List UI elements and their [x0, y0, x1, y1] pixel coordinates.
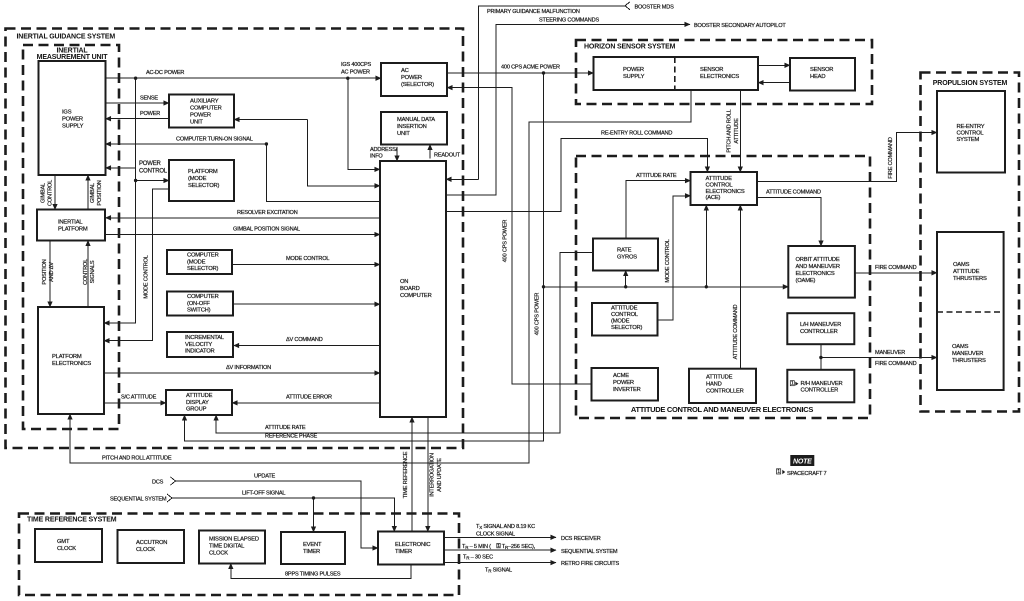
- svg-text:PRIMARY GUIDANCE MALFUNCTION: PRIMARY GUIDANCE MALFUNCTION: [487, 9, 580, 15]
- block: ACCUTRON CLOCK: [118, 530, 185, 563]
- svg-text:SEQUENTIAL SYSTEM: SEQUENTIAL SYSTEM: [110, 497, 167, 503]
- svg-text:400 CPS ACME POWER: 400 CPS ACME POWER: [501, 65, 560, 71]
- svg-text:ATTITUDE CONTROL AND MANEUVER: ATTITUDE CONTROL AND MANEUVER ELECTRONIC…: [631, 405, 813, 414]
- svg-text:FIRE COMMAND: FIRE COMMAND: [888, 137, 894, 179]
- system box: ATTITUDE CONTROL AND MANEUVER ELECTRONICS (dashed): [576, 156, 870, 418]
- svg-text:ATTITUDE RATE: ATTITUDE RATE: [265, 425, 306, 431]
- svg-text:SENSE: SENSE: [140, 96, 158, 102]
- wire: RESOLVER EXCITATION from on-board computer to inertial platform: [106, 217, 381, 219]
- svg-text:TIME REFERENCE: TIME REFERENCE: [403, 451, 409, 498]
- block: ATTITUDE CONTROL (MODE SELECTOR): [592, 303, 658, 336]
- svg-text:INTERROGATION: INTERROGATION: [430, 453, 436, 497]
- wire: STEERING COMMANDS from on-board computer to booster secondary autopilot: [446, 24, 690, 195]
- block: ON BOARD COMPUTER: [380, 161, 446, 417]
- wire: READOUT from on-board computer up to manual data insertion unit: [429, 145, 431, 159]
- block: RE-ENTRY CONTROL SYSTEM: [937, 91, 1005, 173]
- block: EVENT TIMER: [281, 532, 345, 564]
- wire: PITCH AND ROLL ATTITUDE from sensor electronics to ACE: [739, 90, 741, 172]
- block: GMT CLOCK: [35, 529, 102, 562]
- block: AC POWER (SELECTOR): [381, 63, 447, 96]
- block: ATTITUDE DISPLAY GROUP: [166, 390, 232, 415]
- svg-text:ΔV INFORMATION: ΔV INFORMATION: [226, 365, 271, 371]
- svg-text:HORIZON SENSOR SYSTEM: HORIZON SENSOR SYSTEM: [584, 44, 676, 51]
- wire: ATTITUDE COMMAND from attitude hand controller to ACE: [739, 205, 741, 369]
- svg-text:INFO: INFO: [370, 153, 383, 159]
- wire: platform mode selector to platform electronics (mode control): [104, 189, 169, 341]
- wire: DELTA-V COMMAND from on-board computer to incremental velocity indicator: [234, 345, 380, 347]
- svg-text:AC POWER: AC POWER: [341, 70, 370, 76]
- block: ACME POWER INVERTER: [592, 368, 659, 401]
- block: MANUAL DATA INSERTION UNIT: [381, 112, 447, 145]
- wire: DELTA-V INFORMATION from platform electronics to on-board computer: [104, 372, 380, 374]
- wire: MODE CONTROL from computer mode selector to on-board computer: [232, 264, 380, 266]
- wire: ATTITUDE RATE from rate gyros to ACE: [626, 181, 691, 239]
- block: ELECTRONIC TIMER: [378, 532, 444, 565]
- svg-text:CONTROL: CONTROL: [48, 180, 54, 206]
- svg-text:AC-DC POWER: AC-DC POWER: [146, 70, 184, 76]
- svg-text:AND UPDATE: AND UPDATE: [437, 458, 443, 492]
- wire: POWER from auxiliary computer power unit to IGS power supply: [106, 118, 170, 120]
- wire: S/C ATTITUDE from platform electronics to attitude display group: [104, 402, 166, 404]
- svg-text:RETRO FIRE CIRCUITS: RETRO FIRE CIRCUITS: [561, 561, 620, 567]
- wire: 400 CPS ACME POWER from AC power selector to horizon sensor power supply: [447, 72, 594, 74]
- svg-text:TR – 30 SEC: TR – 30 SEC: [463, 555, 493, 561]
- svg-text:ADDRESS/: ADDRESS/: [370, 147, 398, 153]
- block: HORIZON SENSOR POWER SUPPLY / SENSOR ELECTRONICS: [594, 57, 759, 90]
- svg-text:SIGNALS: SIGNALS: [90, 260, 96, 283]
- svg-text:EVENTTIMER: EVENTTIMER: [303, 542, 322, 555]
- svg-text:400 CPS POWER: 400 CPS POWER: [503, 220, 509, 263]
- svg-text:ATTITUDE RATE: ATTITUDE RATE: [636, 173, 677, 179]
- svg-text:INERTIAL GUIDANCE SYSTEM: INERTIAL GUIDANCE SYSTEM: [17, 34, 116, 41]
- svg-text:RE-ENTRY ROLL COMMAND: RE-ENTRY ROLL COMMAND: [601, 131, 672, 137]
- svg-text:READOUT: READOUT: [434, 153, 461, 159]
- svg-text:DCS RECEIVER: DCS RECEIVER: [561, 536, 601, 542]
- svg-text:MODE CONTROL: MODE CONTROL: [665, 239, 671, 282]
- system box: INERTIAL GUIDANCE SYSTEM (dashed): [6, 29, 464, 449]
- svg-text:TIME REFERENCE SYSTEM: TIME REFERENCE SYSTEM: [27, 517, 117, 524]
- system box: TIME REFERENCE SYSTEM (dashed): [19, 514, 459, 596]
- block: INERTIAL PLATFORM: [37, 210, 105, 241]
- svg-text:LIFT-OFF SIGNAL: LIFT-OFF SIGNAL: [242, 491, 285, 497]
- svg-text:UPDATE: UPDATE: [254, 474, 276, 480]
- svg-text:CONTROL: CONTROL: [83, 259, 89, 285]
- wire: 400 CPS POWER from ACME power inverter to AC power selector: [447, 88, 592, 385]
- wire: sensor head to sensor electronics: [758, 82, 790, 84]
- block: ATTITUDE HAND CONTROLLER: [689, 369, 756, 403]
- wire: RE-ENTRY ROLL COMMAND from on-board computer to ACE: [446, 138, 707, 211]
- wire: maneuver controller link and MANEUVER FIRE COMMAND to OAMS maneuver thrusters: [820, 344, 822, 370]
- svg-text:TX SIGNAL AND 8.19 KC: TX SIGNAL AND 8.19 KC: [476, 524, 535, 530]
- wire: FIRE COMMAND from OAME to OAMS attitude thrusters: [855, 272, 937, 274]
- block: AUXILIARY COMPUTER POWER UNIT: [169, 95, 234, 128]
- svg-text:SEQUENTIAL SYSTEM: SEQUENTIAL SYSTEM: [561, 549, 618, 555]
- svg-text:MODE CONTROL: MODE CONTROL: [286, 256, 329, 262]
- wire: AC-DC power branch down into on-board computer: [348, 78, 380, 169]
- wire: GIMBAL CONTROL from IGS power supply down to inertial platform: [54, 175, 56, 210]
- svg-text:GIMBAL: GIMBAL: [41, 183, 47, 203]
- wire: 8PPS TIMING PULSES from electronic timer to mission elapsed time digital clock: [231, 564, 411, 579]
- svg-text:POWER: POWER: [140, 111, 160, 117]
- svg-text:STEERING COMMANDS: STEERING COMMANDS: [539, 18, 599, 24]
- block: INCREMENTAL VELOCITY INDICATOR: [167, 332, 233, 357]
- wire: ATTITUDE ERROR from on-board computer to attitude display group: [232, 402, 380, 404]
- svg-text:400 CPS POWER: 400 CPS POWER: [535, 293, 541, 336]
- wire: POSITION AND DELTA-V from inertial platform down to platform electronics: [49, 241, 51, 308]
- wire: GIMBAL POSITION from inertial platform up to IGS power supply: [87, 175, 89, 210]
- svg-text:1: 1: [791, 381, 794, 387]
- svg-text:FIRE COMMAND: FIRE COMMAND: [875, 361, 917, 367]
- svg-text:TR SIGNAL: TR SIGNAL: [485, 568, 512, 574]
- block: COMPUTER (ON-OFF SWITCH): [167, 292, 233, 316]
- svg-text:PROPULSION SYSTEM: PROPULSION SYSTEM: [933, 80, 1008, 87]
- wire: CONTROL SIGNALS from platform electronics up to inertial platform: [87, 241, 89, 308]
- svg-text:IGS 400CPS: IGS 400CPS: [341, 62, 371, 68]
- svg-text:GIMBAL POSITION SIGNAL: GIMBAL POSITION SIGNAL: [233, 227, 300, 233]
- wire: TX SIGNAL AND 8.19 KC CLOCK SIGNAL to DCS receiver: [444, 536, 556, 538]
- block: ORBIT ATTITUDE AND MANEUVER ELECTRONICS (OAME): [788, 246, 855, 298]
- svg-text:8PPS TIMING PULSES: 8PPS TIMING PULSES: [285, 572, 341, 578]
- svg-text:S/C ATTITUDE: S/C ATTITUDE: [121, 395, 157, 401]
- wire: PITCH AND ROLL ATTITUDE from sensor electronics to platform electronics: [70, 90, 691, 463]
- wire: FIRE COMMAND from ACE to re-entry control system: [757, 133, 937, 182]
- block: IGS POWER SUPPLY: [39, 61, 106, 175]
- wire: MODE CONTROL from attitude control mode selector to ACE: [658, 196, 691, 320]
- wire: UPDATE from DCS to electronic timer: [171, 477, 176, 485]
- wire: POWER CONTROL trunk from AC-DC power line down to platform electronics: [134, 77, 137, 80]
- wire: COMPUTER TURN-ON SIGNAL from on-board computer to IGS power supply: [106, 144, 381, 202]
- svg-text:NOTE: NOTE: [793, 459, 812, 466]
- block: L/H MANEUVER CONTROLLER: [787, 313, 854, 344]
- svg-text:FIRE COMMAND: FIRE COMMAND: [875, 265, 917, 271]
- wire: ADDRESS/INFO from manual data insertion unit down to on-board computer: [396, 147, 398, 161]
- svg-text:ATTITUDE: ATTITUDE: [734, 118, 740, 144]
- svg-text:BOOSTER SECONDARY AUTOPILOT: BOOSTER SECONDARY AUTOPILOT: [694, 23, 786, 29]
- svg-text:MEASUREMENT UNIT: MEASUREMENT UNIT: [37, 54, 109, 61]
- svg-text:PITCH AND ROLL ATTITUDE: PITCH AND ROLL ATTITUDE: [102, 456, 172, 462]
- wire: computer on-off switch to on-board computer: [234, 303, 380, 305]
- svg-text:L/H MANEUVERCONTROLLER: L/H MANEUVERCONTROLLER: [800, 322, 841, 335]
- svg-text:TR–256 SEC),: TR–256 SEC),: [502, 544, 536, 550]
- svg-text:GIMBAL: GIMBAL: [90, 183, 96, 203]
- svg-text:DCS: DCS: [152, 480, 164, 486]
- svg-text:POSITION: POSITION: [97, 180, 103, 205]
- block: RATE GYROS: [593, 239, 658, 271]
- wire: SENSE from IGS power supply to auxiliary computer power unit: [106, 102, 170, 104]
- wire: ATTITUDE RATE from rate gyros to attitude display group: [216, 253, 593, 433]
- svg-text:SPACECRAFT 7: SPACECRAFT 7: [787, 471, 826, 477]
- system box: HORIZON SENSOR SYSTEM (dashed): [576, 40, 872, 104]
- svg-text:BOOSTER MDS: BOOSTER MDS: [635, 4, 675, 10]
- wire: ATTITUDE COMMAND from ACE to OAME: [757, 197, 821, 246]
- wire: power line into auxiliary computer power unit and on-board computer: [234, 119, 308, 121]
- svg-text:RESOLVER EXCITATION: RESOLVER EXCITATION: [237, 210, 298, 216]
- svg-text:MANEUVER: MANEUVER: [875, 350, 905, 356]
- svg-text:TR – 5 MIN (: TR – 5 MIN (: [462, 544, 491, 550]
- svg-text:POSITION: POSITION: [42, 259, 48, 284]
- block: COMPUTER (MODE SELECTOR): [167, 250, 232, 274]
- svg-text:CLOCK SIGNAL: CLOCK SIGNAL: [476, 532, 515, 538]
- note: NOTE flag and SPACECRAFT 7 footnote: [790, 455, 814, 466]
- svg-text:MODE CONTROL: MODE CONTROL: [144, 255, 150, 298]
- wire: LIFT-OFF SIGNAL from sequential system to event timer and electronic timer: [167, 494, 172, 502]
- wire: GIMBAL POSITION SIGNAL from inertial platform to on-board computer: [106, 234, 381, 236]
- wire: PRIMARY GUIDANCE MALFUNCTION to booster MDS: [446, 178, 478, 180]
- wire: TIME REFERENCE from electronic timer up to on-board computer: [411, 417, 413, 532]
- wire: acme power / reference phase trunk down to attitude display group: [185, 73, 544, 441]
- wire: AC-DC POWER from IGS power supply to AC power selector: [106, 77, 382, 79]
- block: PLATFORM (MODE SELECTOR): [169, 160, 234, 201]
- svg-text:CONTROL: CONTROL: [139, 169, 168, 175]
- system box: PROPULSION SYSTEM (dashed): [921, 73, 1020, 412]
- block: PLATFORM ELECTRONICS: [38, 307, 104, 414]
- block: R/H MANEUVER CONTROLLER (spacecraft 7 note): [787, 370, 854, 403]
- svg-text:R/H MANEUVERCONTROLLER: R/H MANEUVERCONTROLLER: [801, 381, 843, 394]
- wire: power control branch to platform mode selector: [136, 180, 169, 182]
- svg-text:ATTITUDE COMMAND: ATTITUDE COMMAND: [766, 190, 821, 196]
- svg-text:POWER: POWER: [139, 161, 162, 167]
- svg-text:PITCH AND ROLL: PITCH AND ROLL: [727, 109, 733, 152]
- svg-text:COMPUTER TURN-ON SIGNAL: COMPUTER TURN-ON SIGNAL: [176, 137, 253, 143]
- svg-text:POWERSUPPLY: POWERSUPPLY: [623, 67, 645, 80]
- block: MISSION ELAPSED TIME DIGITAL CLOCK: [199, 531, 265, 564]
- svg-text:ATTITUDE ERROR: ATTITUDE ERROR: [286, 395, 332, 401]
- system box: INERTIAL MEASUREMENT UNIT (dashed): [23, 45, 119, 429]
- svg-text:1: 1: [777, 469, 780, 475]
- svg-text:AND ΔV: AND ΔV: [49, 262, 55, 282]
- svg-text:ΔV COMMAND: ΔV COMMAND: [286, 337, 323, 343]
- block: SENSOR HEAD: [790, 58, 855, 91]
- svg-text:ATTITUDE COMMAND: ATTITUDE COMMAND: [733, 304, 739, 359]
- block: ATTITUDE CONTROL ELECTRONICS (ACE): [691, 172, 758, 205]
- wire: TR-5 MIN signal to sequential system: [444, 549, 556, 551]
- wire: INTERROGATION AND UPDATE from on-board computer down to electronic timer: [427, 417, 429, 532]
- block: OAMS ATTITUDE THRUSTERS / OAMS MANEUVER THRUSTERS: [937, 232, 1004, 390]
- wire: acme power distribution to rate gyros, ACE and OAME: [544, 286, 789, 288]
- svg-text:REFERENCE PHASE: REFERENCE PHASE: [265, 434, 317, 440]
- wire: sensor electronics to sensor head: [758, 64, 790, 66]
